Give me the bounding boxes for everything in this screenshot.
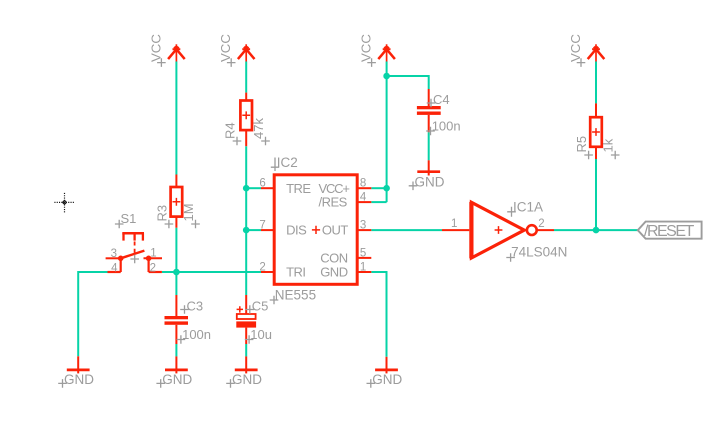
- ground GND (below IC2 pin1 drop): [375, 357, 398, 374]
- IC2 pin 8 VCC+: [357, 187, 371, 189]
- svg-text:2: 2: [150, 262, 156, 274]
- svg-text:7: 7: [259, 220, 265, 232]
- wire junction to IC2 DIS: [246, 229, 261, 231]
- wire VCC3 down past C4 branch to pin4 level: [386, 62, 388, 203]
- wire to IC2 /RES pin4: [371, 201, 386, 203]
- IC1A input pin 1: [442, 229, 469, 231]
- IC2 pin 6 TRE: [261, 187, 274, 189]
- sheet origin crosshair: [54, 193, 74, 213]
- svg-text:1: 1: [360, 261, 366, 273]
- junction node DIS branch: [243, 227, 250, 234]
- svg-text:C3: C3: [187, 299, 204, 314]
- svg-text:8: 8: [360, 178, 366, 190]
- svg-text:1: 1: [150, 248, 156, 260]
- wire VCC4 to R5: [595, 62, 597, 104]
- svg-text:3: 3: [111, 248, 117, 260]
- svg-text:1: 1: [451, 218, 457, 230]
- ground GND (below C5): [235, 356, 258, 373]
- inverter IC1A 74LS04N: [471, 202, 536, 259]
- ground GND (below C3): [165, 356, 188, 373]
- IC2 pin 5 CON: [357, 257, 371, 259]
- svg-text:GND: GND: [64, 372, 94, 387]
- svg-text:IC2: IC2: [277, 155, 298, 170]
- IC2 origin + mark: [312, 226, 320, 234]
- supply VCC (net 3, above C4 branch): [378, 44, 395, 61]
- svg-text:GND: GND: [162, 372, 192, 387]
- resistor R5: [590, 103, 602, 159]
- wire S1 pin4 to left drop: [78, 271, 107, 273]
- junction R3/C3/S1 node: [173, 269, 180, 276]
- svg-text:OUT: OUT: [322, 223, 349, 238]
- svg-text:CON: CON: [320, 251, 348, 266]
- wire junction to IC2 TRE: [246, 187, 261, 189]
- wire to IC2 VCC+ pin8: [371, 187, 386, 189]
- net flag /RESET: [638, 222, 702, 239]
- junction node TRE branch: [243, 185, 250, 192]
- wire IC2 GND pin1 drop to GND: [386, 271, 388, 357]
- junction C4 branch: [383, 73, 390, 80]
- svg-text:1k: 1k: [601, 138, 616, 152]
- svg-text:VCC: VCC: [568, 34, 583, 62]
- wire R4 to C5 (through junctions): [245, 146, 247, 295]
- wire C4 to GND: [428, 132, 430, 160]
- svg-text:VCC: VCC: [359, 34, 374, 62]
- svg-text:2: 2: [538, 218, 544, 230]
- wire VCC2 to R4: [245, 62, 247, 93]
- svg-text:5: 5: [360, 247, 366, 259]
- svg-text:/RES: /RES: [319, 194, 348, 209]
- wire VCC1 to R3: [175, 62, 177, 175]
- svg-text:R5: R5: [574, 136, 589, 153]
- svg-text:GND: GND: [372, 372, 402, 387]
- svg-text:GND: GND: [415, 175, 445, 190]
- svg-text:100n: 100n: [182, 327, 211, 342]
- wire left drop to GND: [77, 271, 79, 356]
- wire C4 branch vertical: [428, 75, 430, 89]
- switch S1: [106, 233, 162, 272]
- capacitor C3: [165, 316, 189, 325]
- svg-text:IC1A: IC1A: [513, 199, 543, 214]
- svg-text:47k: 47k: [251, 118, 266, 139]
- wire IC1A output to /RESET flag: [554, 229, 638, 231]
- svg-text:100n: 100n: [432, 119, 461, 134]
- wire C4 branch horizontal: [387, 75, 429, 77]
- wire R5 to output net: [595, 159, 597, 230]
- svg-text:DIS: DIS: [286, 223, 307, 238]
- IC2 NE555 body: [274, 175, 357, 284]
- supply VCC (net 1, above R3): [168, 44, 185, 61]
- ground GND (below C4): [417, 160, 440, 175]
- resistor R4: [240, 93, 252, 147]
- svg-text:VCC: VCC: [148, 34, 163, 62]
- svg-text:TRE: TRE: [286, 181, 311, 196]
- wire node to C3: [175, 272, 177, 295]
- svg-text:GND: GND: [232, 372, 262, 387]
- wire R3 to node junction: [175, 228, 177, 272]
- IC2 pin 3 OUT: [357, 229, 371, 231]
- IC2 pin 1 GND: [357, 271, 371, 273]
- capacitor C4: [417, 106, 441, 115]
- svg-text:4: 4: [111, 262, 118, 274]
- svg-text:GND: GND: [320, 265, 348, 280]
- IC2 origin cross: [271, 158, 279, 172]
- IC2 pin 2 TRI: [261, 271, 274, 273]
- junction VCC pin8 branch: [383, 185, 390, 192]
- svg-text:2: 2: [259, 261, 265, 273]
- IC1A output pin 2: [537, 229, 554, 231]
- capacitor C5 (polarized): [237, 314, 256, 319]
- svg-text:VCC: VCC: [218, 34, 233, 62]
- svg-text:R4: R4: [223, 122, 238, 139]
- wire C5 to GND: [245, 344, 247, 356]
- IC2 pin 7 DIS: [261, 229, 274, 231]
- resistor R3: [171, 175, 183, 228]
- supply VCC (net 2, above R4): [238, 44, 255, 61]
- svg-text:6: 6: [259, 178, 265, 190]
- wire C3 to GND: [175, 344, 177, 356]
- svg-text:TRI: TRI: [286, 265, 305, 280]
- ground GND (below S1 drop): [67, 356, 90, 373]
- svg-text:4: 4: [360, 192, 367, 204]
- svg-text:74LS04N: 74LS04N: [511, 245, 567, 260]
- svg-text:R3: R3: [154, 205, 169, 222]
- wire IC2 OUT to IC1A input: [371, 229, 442, 231]
- junction R5/RESET net: [593, 227, 600, 234]
- wire IC2 GND pin1 horizontal: [371, 271, 386, 273]
- svg-text:C4: C4: [433, 92, 450, 107]
- supply VCC (net 4, above R5): [588, 44, 605, 61]
- svg-text:NE555: NE555: [275, 288, 316, 303]
- svg-text:3: 3: [360, 220, 366, 232]
- svg-text:/RESET: /RESET: [644, 223, 695, 240]
- IC2 pin 4 /RES: [357, 201, 371, 203]
- wire S1 pin2 to IC2 TRI: [162, 271, 261, 273]
- svg-text:10u: 10u: [250, 327, 272, 342]
- svg-text:C5: C5: [252, 299, 269, 314]
- svg-text:1M: 1M: [181, 203, 196, 221]
